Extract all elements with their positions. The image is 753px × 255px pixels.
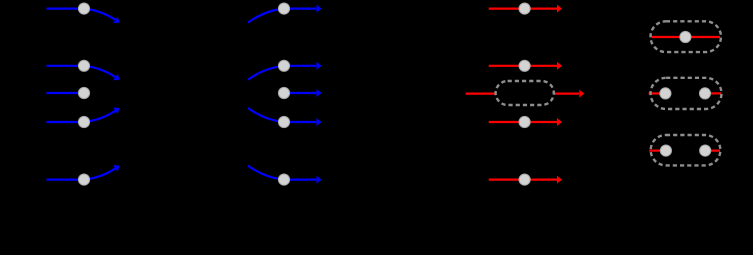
panel3 token node r1 [519,3,530,14]
panel4 dashed merge box group1 [651,21,722,52]
panel3 token node r2 [519,60,530,71]
panel2 straight arrow r1 [284,8,316,10]
panel2 token node r3 [278,87,289,98]
panel3 token node r4 [519,116,530,127]
panel2 straight arrow r4 [284,121,316,123]
panel4 token node group3 right [700,145,711,156]
panel2 straight arrow r5 [284,179,316,181]
panel2 token node r5 [278,174,289,185]
panel1 token node r5 [78,174,89,185]
panel2 token node r2 [278,60,289,71]
panel4 red wire through group1 [652,36,721,38]
panel1 token node r3 [78,87,89,98]
panel3 red arrow r1 [489,8,557,10]
panel1 token node r2 [78,60,89,71]
panel4 dashed merge box group2 [651,78,722,109]
panel1 curved arrow r4 [85,111,116,122]
panel1 curved arrow r1 [85,9,116,20]
panel4 red stub left group2 [649,92,661,94]
panel1 wire r4 [47,121,85,123]
panel4 red stub right group2 [710,92,721,94]
panel3 dashed pruned-token box [496,81,554,105]
panel3 token node r5 [519,174,530,185]
panel1 token node r4 [78,116,89,127]
panel4 merged node group1 [680,31,691,42]
panel2 token node r4 [278,116,289,127]
panel3 red arrow r4 [489,121,557,123]
panel1 token node r1 [78,3,89,14]
panel4 red stub right group3 [710,150,721,152]
panel2 curved wire r1 [248,9,284,23]
panel4 token node group2 left [660,88,671,99]
panel4 dashed merge box group3 [651,135,721,165]
panel1 curved arrow r5 [85,168,116,179]
panel2 curved wire r5 [248,166,284,180]
panel4 red stub left group3 [649,150,661,152]
panel2 curved wire r4 [248,108,284,122]
panel3 red arrow r2 [489,65,557,67]
panel2 token node r1 [278,3,289,14]
panel2 straight arrow r3 [284,92,316,94]
panel3 red arrow r3 (through pruned slot) [466,92,496,94]
panel1 wire r5 [47,179,85,181]
panel1 wire r1 [47,8,85,10]
panel4 token node group3 left [660,145,671,156]
panel1 curved arrow r2 [85,66,116,77]
panel4 token node group2 right [699,88,710,99]
panel2 straight arrow r2 [284,65,316,67]
panel2 curved wire r2 [248,66,284,80]
panel1 wire r2 [47,65,85,67]
panel3 red arrow r5 [489,179,557,181]
panel1 wire r3 [47,92,85,94]
